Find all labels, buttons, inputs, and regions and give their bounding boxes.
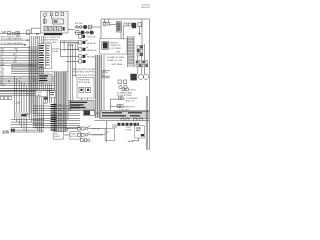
svg-text:DROP RELAY: DROP RELAY — [78, 81, 91, 84]
far right vertical w1 — [145, 96, 147, 150]
switch S3 contact — [84, 139, 87, 142]
right mid vertical — [109, 99, 111, 110]
band tap box marks — [50, 92, 54, 95]
riser to smj box — [67, 128, 69, 132]
bottom switch S2 body — [78, 133, 81, 136]
duct rung r2 — [128, 41, 134, 43]
switch column E row0 component — [79, 35, 82, 38]
sub box right middle — [96, 60, 98, 78]
switch row0 label — [86, 37, 96, 39]
wire W1 battery feed — [0, 33, 41, 35]
component B4 — [88, 25, 91, 29]
svg-text:W/B: W/B — [2, 31, 7, 34]
switch S1 label — [92, 128, 101, 130]
wire row b/p — [11, 71, 44, 73]
bottom box 2 text — [71, 134, 78, 139]
right bottom wire — [114, 110, 149, 112]
sub line 95 — [0, 94, 44, 96]
left junction labels boxes — [1, 97, 12, 100]
svg-text:W/B: W/B — [44, 103, 48, 105]
duct vertical v4 — [101, 55, 103, 118]
switch S2 contact — [81, 133, 84, 136]
trunk wire v8 — [42, 36, 44, 128]
switch S2 label — [92, 135, 103, 137]
duct rung r3 — [128, 44, 134, 46]
harness wire row 8 — [33, 122, 80, 124]
right mid wire 2 — [110, 105, 122, 107]
reference box G gray — [69, 100, 94, 110]
box L inner marks — [136, 128, 141, 131]
wire row l/b — [0, 54, 43, 56]
mid bundle left labels — [1, 75, 6, 87]
svg-text:TO EC-MAIN HARNESS: TO EC-MAIN HARNESS — [1, 38, 24, 41]
svg-text:CONNECTOR: CONNECTOR — [110, 45, 122, 47]
bottom right box K gray strip — [100, 111, 149, 119]
bottom bus dark — [33, 127, 80, 129]
injector wire row 5 — [11, 129, 44, 131]
wire row g/r — [0, 52, 40, 54]
harness wire row 1 — [33, 105, 80, 107]
left callout arrow 1 — [0, 39, 29, 41]
switch E3 body — [79, 55, 82, 58]
ECM main box C top edge — [101, 18, 149, 20]
component B6 — [81, 31, 84, 35]
bottom dark component — [84, 111, 90, 116]
wire row pu/w — [0, 85, 54, 87]
wire row g/w — [11, 67, 44, 69]
fuse F2 element — [17, 33, 19, 35]
bottom switch S3 body — [81, 139, 84, 142]
riser wire v2 — [69, 44, 71, 110]
pin stub p2 — [108, 19, 110, 23]
right bottom: top text — [119, 109, 129, 111]
switch S2 circle — [85, 134, 88, 137]
terminal T2 — [124, 23, 127, 26]
relay square F2 — [86, 87, 91, 92]
coil drop stub 1 — [120, 32, 122, 39]
duct vertical v2 — [96, 55, 98, 118]
duct rung r8 — [128, 59, 134, 61]
joint block H2 text — [39, 75, 48, 81]
connector D right col marks — [46, 45, 50, 65]
ECM inner vertical — [141, 19, 143, 46]
right text rows y92 — [117, 91, 133, 96]
injector wire row 6 — [11, 131, 44, 133]
wire W4 — [110, 24, 116, 26]
ground G1 — [139, 33, 141, 35]
right bottom dark pin row — [118, 123, 139, 126]
svg-text:TO EC-MAFS HARNESS: TO EC-MAFS HARNESS — [1, 42, 24, 45]
switch E1 lever — [85, 40, 88, 42]
wire2 label — [124, 105, 136, 108]
gray duct band right — [128, 36, 134, 67]
distributor drop 3 — [144, 67, 146, 74]
harness wire row 6 — [33, 117, 80, 119]
svg-text:DATA LINK: DATA LINK — [110, 42, 119, 45]
duct band edge left — [127, 36, 129, 67]
harness wire row 3 — [33, 110, 80, 112]
svg-text:BLOCK: BLOCK — [71, 136, 78, 138]
spark comp body — [119, 97, 122, 100]
connector block D outer — [38, 44, 51, 68]
switch S2 diag — [88, 132, 91, 134]
port ring 2 — [124, 85, 127, 88]
injector wire row 4 — [11, 127, 44, 129]
switch S1 out wire — [88, 128, 105, 130]
right bottom terminal pair 1 — [121, 118, 124, 121]
sub box h line 1 — [97, 70, 110, 72]
arrowhead 1 — [27, 39, 29, 41]
label wire W1 — [2, 31, 7, 34]
wire drop v2 — [16, 78, 18, 122]
coil hatch 1 — [116, 23, 121, 25]
harness wire row 7 — [33, 120, 80, 122]
gray band left — [28, 46, 37, 114]
duct vertical v5 — [103, 55, 105, 110]
svg-text:SHEET: SHEET — [54, 136, 61, 138]
injector wire row 2 — [11, 121, 44, 123]
connector ring C1 — [12, 32, 15, 35]
switch E3 lever — [85, 54, 88, 56]
y88 label — [130, 89, 137, 91]
inhibitor box — [68, 43, 78, 49]
ECM main box C left edge — [100, 19, 102, 39]
wire right drop 1 — [137, 56, 139, 61]
branch wire v3 — [48, 84, 50, 103]
wire row r/y — [11, 65, 44, 67]
sub box h line 2 — [97, 75, 110, 77]
duct vertical v1 — [94, 55, 96, 118]
shield wire s4 — [62, 72, 64, 133]
wire drop v6 — [25, 86, 27, 132]
wire row w/pu — [11, 64, 44, 66]
data link icon frame — [102, 41, 109, 49]
distributor blob — [130, 74, 136, 81]
relay inner mark A6b — [54, 20, 58, 23]
small box text — [36, 92, 42, 97]
svg-text:15: 15 — [36, 32, 40, 36]
diode cluster B row2 wire — [75, 32, 95, 34]
wire row w/g — [11, 72, 44, 74]
wire2 comp 1 — [117, 105, 120, 108]
battery plus terminal 1 — [118, 80, 121, 83]
long text row mid — [72, 68, 97, 71]
switch E4 wire — [66, 61, 79, 63]
corner vertical c2 — [63, 41, 65, 51]
band tap box — [50, 91, 56, 98]
cluster B labels — [75, 23, 83, 25]
connector D top text — [36, 37, 61, 44]
switch E4 body — [79, 60, 82, 63]
trunk wire v5 — [37, 36, 39, 130]
coil hatch 2 — [116, 26, 121, 28]
right bottom terminal pair 3 — [134, 118, 137, 121]
box near switches — [105, 128, 114, 140]
switch E1 wire — [60, 42, 78, 44]
harness wire row 2 — [33, 107, 80, 109]
bottom center pin label dashes — [51, 104, 57, 131]
switch E2 wire — [60, 49, 78, 51]
shield wire s5 — [64, 72, 66, 133]
wire row b/y — [0, 81, 54, 83]
branch wire v4 — [50, 84, 52, 103]
svg-text:MAIN: MAIN — [36, 94, 41, 97]
injector wire row 1 — [11, 119, 44, 121]
svg-text:THROTTLE: THROTTLE — [86, 37, 96, 39]
right-center gray duct — [95, 55, 102, 118]
box text — [106, 131, 110, 134]
central band edge R — [65, 72, 67, 133]
duct rung r5 — [128, 50, 134, 52]
junction label text — [15, 103, 21, 105]
svg-text:SPARK PLUG: SPARK PLUG — [124, 105, 136, 108]
shield wire s2 — [58, 72, 60, 133]
wire row ign — [0, 47, 30, 49]
page right border — [148, 19, 150, 150]
svg-text:PU/W: PU/W — [1, 84, 6, 86]
relay pin stub A5 — [50, 16, 52, 20]
connector D side label — [52, 49, 60, 54]
wire labels on bottom lines — [59, 105, 63, 127]
riser wire v1 — [67, 44, 69, 120]
distributor drop 1 — [137, 67, 139, 74]
trunk wire v1 — [29, 36, 31, 120]
connector ring B2 — [79, 26, 82, 29]
rotor ring 1 — [138, 74, 143, 79]
bottom box 2 — [70, 132, 80, 140]
bottom dark component frame — [83, 110, 94, 116]
wire below K — [94, 120, 149, 122]
svg-text:105: 105 — [2, 129, 10, 134]
shield wire s1 — [56, 72, 58, 133]
sub line 91 — [0, 91, 36, 93]
trunk wire v4 — [35, 36, 37, 128]
component B5 — [76, 31, 79, 35]
relay terminal dark A7b — [63, 27, 65, 31]
relay contact A3b — [61, 13, 64, 16]
right bottom terminal pair 2 — [126, 118, 129, 121]
distributor drop 2 — [140, 67, 142, 74]
node J1 — [27, 30, 30, 35]
joint block H2 gray — [38, 74, 52, 82]
svg-text:CHECK: CHECK — [130, 89, 137, 91]
wire drop v4 — [21, 82, 23, 128]
label above patch — [25, 114, 30, 116]
arrowhead 2 — [24, 44, 26, 46]
terminal T1 — [107, 23, 110, 26]
switch S1 contact — [81, 127, 84, 130]
switch E2 label — [87, 50, 97, 52]
svg-text:AND COIL: AND COIL — [126, 99, 135, 102]
svg-text:B/R G/B: B/R G/B — [75, 23, 83, 25]
spark label — [126, 98, 138, 102]
bottom-left dark label 105 — [2, 129, 10, 134]
wire drop v5 — [23, 84, 25, 130]
duct band edge right — [133, 36, 135, 67]
switch E1 label — [87, 42, 96, 45]
branch wire v1 — [44, 84, 46, 103]
bottom box 1 text — [54, 134, 61, 139]
relay square F2 core — [87, 89, 89, 91]
sub box text — [98, 73, 110, 80]
battery plus terminal 2 — [123, 80, 126, 83]
coil drop stub 2 — [122, 26, 124, 39]
svg-text:EC-AAC, EC-IGN: EC-AAC, EC-IGN — [107, 59, 122, 62]
relay inner box A6 — [52, 19, 63, 24]
central band edge L — [53, 72, 55, 133]
wire row y/g — [0, 60, 40, 62]
check connector text — [110, 42, 122, 54]
far right vertical w2 — [147, 96, 149, 150]
fuel pump relay box A — [41, 11, 69, 33]
injector wire row 3 — [11, 124, 44, 126]
svg-text:RELAY: RELAY — [52, 50, 59, 53]
wb mark — [44, 103, 48, 105]
right bottom terminal pair 4 — [139, 118, 142, 121]
box L label rows — [126, 127, 132, 132]
relay terminal row A7 hatched — [44, 26, 61, 31]
data link icon — [103, 42, 108, 48]
switch row0 blob — [82, 35, 85, 38]
sub line 93 — [0, 92, 36, 94]
fuel pump box L — [135, 126, 145, 138]
relay pin stub A4 — [44, 17, 45, 24]
bottom-left terminal 2 — [13, 129, 15, 132]
page note text top right — [141, 5, 155, 10]
wire W2 branch up — [32, 28, 41, 33]
box K border — [100, 111, 149, 119]
switch E1 contact — [83, 41, 86, 44]
relay name label — [44, 33, 62, 35]
right mid wires spark — [110, 98, 125, 100]
switch E2 lever — [85, 47, 88, 49]
bottom box 1 — [53, 132, 63, 140]
switch E3 wire — [60, 55, 78, 57]
wire W3 relay to cluster — [68, 29, 75, 31]
box K text — [102, 112, 142, 116]
switch E4 blob — [83, 60, 86, 63]
duct vertical v3 — [99, 55, 101, 118]
corner wire top — [60, 40, 78, 42]
svg-text:E15: E15 — [36, 37, 39, 39]
svg-text:1 NM: 1 NM — [116, 51, 121, 53]
inhibitor box text — [69, 45, 75, 47]
left wire labels col — [1, 49, 20, 66]
relay contact A2 — [50, 13, 52, 16]
callout text 1 — [1, 35, 24, 40]
duct rung r6 — [128, 53, 134, 55]
svg-text:VALVE SW: VALVE SW — [87, 42, 96, 45]
svg-text:INHIBIT SW: INHIBIT SW — [87, 50, 97, 52]
switch S2 out wire — [88, 134, 105, 136]
svg-text:NEUTRAL: NEUTRAL — [87, 56, 95, 59]
wire row r/w — [0, 75, 54, 77]
pin stub p1 — [104, 19, 106, 23]
component B3 — [83, 25, 86, 29]
small box left-center — [36, 91, 48, 97]
svg-text:IGNITION SWITCH (START): IGNITION SWITCH (START) — [72, 68, 97, 71]
switch E1 body — [79, 41, 82, 44]
relay coil A1 — [43, 14, 46, 17]
duct rung r9 — [128, 62, 134, 64]
F to G wire 1 — [81, 98, 83, 100]
main bus line 1 — [0, 87, 66, 89]
wire linking boxes — [64, 134, 70, 136]
box F title — [78, 79, 91, 85]
joint block H2 border — [38, 74, 52, 82]
terminal T3 — [128, 23, 131, 26]
riser wire v3 — [72, 44, 74, 100]
left row labels 64-75 — [1, 64, 6, 75]
switch E3 contact — [83, 55, 86, 58]
svg-text:+ WB: + WB — [15, 103, 21, 105]
trunk wire v6 — [39, 36, 41, 132]
svg-text:F/PUMP AND: F/PUMP AND — [78, 79, 90, 82]
left gray label bottom right — [112, 124, 117, 128]
connector ring B7 — [86, 31, 89, 34]
svg-text:INHIB: INHIB — [69, 45, 75, 47]
svg-text:— NEXT PAGE —: — NEXT PAGE — — [109, 63, 125, 66]
switch S1 body — [78, 127, 81, 130]
switch E3 label — [87, 56, 95, 59]
wire2 comp 2 — [121, 105, 124, 108]
wire row l/w — [0, 79, 66, 81]
wire row l/or — [11, 69, 44, 71]
harness wire row 4 — [33, 112, 80, 114]
box G border — [69, 100, 94, 110]
connector D pin dashes — [39, 45, 44, 68]
rotor ring 2 — [143, 74, 148, 79]
shield wire s3 — [60, 72, 62, 133]
corner vertical c1 — [59, 41, 61, 56]
svg-text:EC-IGN SYSTEM: EC-IGN SYSTEM — [117, 95, 132, 97]
switch S1 circle — [85, 127, 88, 130]
left callout arrow 2 — [0, 44, 26, 46]
harness wire row 5 — [33, 115, 80, 117]
duct rung r4 — [128, 47, 134, 49]
svg-text:R/W: R/W — [1, 75, 5, 77]
text row left of F — [37, 70, 69, 73]
right mid small rect row y88 — [122, 88, 125, 91]
box G text — [70, 102, 87, 109]
switch E2 contact — [83, 48, 86, 51]
diode cluster B row1 wire — [75, 26, 102, 28]
wire right drop 2 — [140, 56, 142, 61]
wire drop v1 — [13, 76, 15, 119]
condenser U3 — [132, 23, 136, 28]
relay square F1 — [79, 87, 84, 92]
connector ring B1 — [76, 26, 79, 29]
wire row g/y — [0, 77, 54, 79]
small dark box under — [44, 97, 48, 100]
switch S1 diag — [88, 126, 91, 128]
label 0.15 — [36, 32, 40, 36]
wire row gy — [0, 65, 37, 67]
switch S3 circle — [88, 139, 90, 141]
ignition coil U2 — [116, 22, 121, 33]
dark marks on patch — [21, 114, 26, 116]
relay lever A1a — [46, 12, 48, 14]
trunk wire v3 — [33, 36, 35, 125]
svg-text:L/W: L/W — [1, 79, 4, 81]
F to G wire 2 — [87, 98, 89, 100]
svg-text:W/L: W/L — [1, 82, 4, 84]
svg-text:MODULE HARN: MODULE HARN — [141, 6, 150, 9]
svg-text:E15 BODY GND: E15 BODY GND — [43, 42, 57, 44]
duct rung r1 — [128, 38, 134, 40]
right terminal cluster row — [136, 61, 148, 67]
wire drop v3 — [18, 80, 20, 125]
